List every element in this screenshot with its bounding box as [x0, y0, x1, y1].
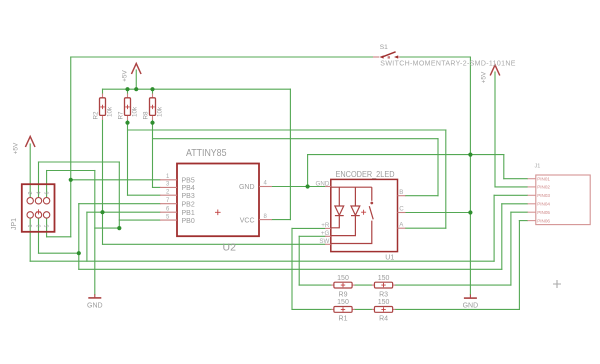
svg-text:10k: 10k: [107, 106, 114, 117]
svg-text:+5V: +5V: [122, 69, 129, 81]
svg-text:+5V: +5V: [13, 142, 20, 154]
svg-text:2: 2: [28, 192, 34, 195]
svg-text:C: C: [399, 206, 404, 213]
svg-text:ATTINY85: ATTINY85: [186, 148, 227, 159]
svg-text:J1: J1: [535, 163, 541, 169]
svg-text:PIN01: PIN01: [537, 176, 550, 181]
svg-text:VCC: VCC: [240, 217, 255, 224]
svg-text:10k: 10k: [157, 106, 164, 117]
svg-text:3: 3: [36, 225, 42, 228]
svg-text:GND: GND: [463, 303, 479, 310]
svg-text:PB3: PB3: [182, 193, 195, 200]
svg-text:PB4: PB4: [182, 185, 195, 192]
svg-text:150: 150: [337, 299, 349, 306]
svg-text:PB1: PB1: [182, 210, 195, 217]
svg-text:ENCODER_2LED: ENCODER_2LED: [336, 170, 395, 179]
svg-text:R9: R9: [339, 291, 348, 298]
svg-text:+R: +R: [321, 222, 330, 229]
svg-text:R1: R1: [339, 316, 348, 323]
svg-text:S1: S1: [380, 44, 388, 51]
svg-text:U2: U2: [223, 241, 237, 253]
svg-text:SW: SW: [319, 238, 329, 245]
svg-text:JP1: JP1: [11, 218, 18, 230]
svg-text:10k: 10k: [132, 106, 139, 117]
svg-text:R7: R7: [118, 111, 125, 120]
svg-text:B: B: [399, 189, 403, 196]
svg-text:GND: GND: [87, 303, 103, 310]
svg-text:1: 1: [28, 225, 34, 228]
svg-text:PIN06: PIN06: [537, 218, 550, 223]
svg-text:SWITCH-MOMENTARY-2-SMD-1101NE: SWITCH-MOMENTARY-2-SMD-1101NE: [380, 61, 516, 68]
svg-text:4: 4: [36, 192, 42, 195]
svg-text:GND: GND: [316, 180, 330, 187]
svg-text:PB2: PB2: [182, 201, 195, 208]
svg-text:PIN05: PIN05: [537, 210, 550, 215]
svg-text:PIN02: PIN02: [537, 185, 550, 190]
svg-text:R2: R2: [93, 111, 100, 120]
svg-text:U1: U1: [385, 255, 394, 262]
svg-text:+5V: +5V: [480, 71, 487, 83]
svg-text:PB5: PB5: [182, 178, 195, 185]
svg-text:150: 150: [378, 275, 390, 282]
svg-text:PIN03: PIN03: [537, 193, 550, 198]
svg-text:6: 6: [44, 192, 50, 195]
svg-text:R4: R4: [379, 316, 388, 323]
svg-text:150: 150: [378, 299, 390, 306]
svg-text:PIN04: PIN04: [537, 202, 550, 207]
svg-text:R8: R8: [143, 111, 150, 120]
svg-text:R3: R3: [379, 291, 388, 298]
svg-text:PB0: PB0: [182, 218, 195, 225]
svg-text:5: 5: [44, 225, 50, 228]
svg-text:150: 150: [337, 275, 349, 282]
svg-text:GND: GND: [239, 184, 255, 191]
svg-text:+G: +G: [321, 230, 330, 237]
